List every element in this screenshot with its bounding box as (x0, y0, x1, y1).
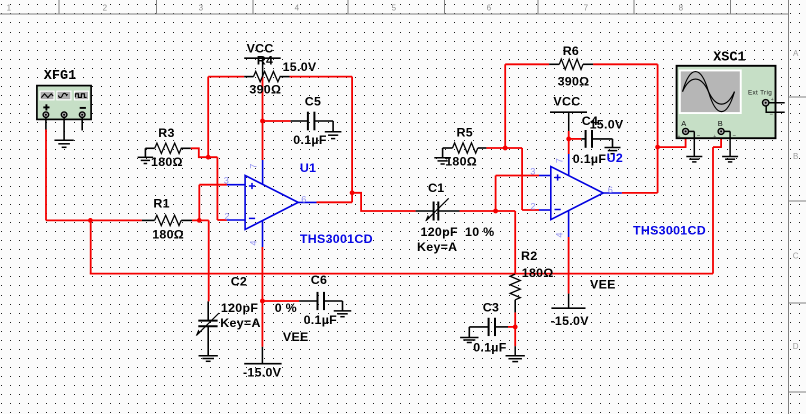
svg-text:THS3001CD: THS3001CD (633, 223, 706, 237)
node R2-C3 junction (513, 325, 518, 330)
resistor R5 (443, 147, 453, 149)
capacitor C4 (581, 138, 585, 140)
op-amp U1 (227, 160, 317, 247)
svg-text:A: A (793, 49, 799, 58)
svg-text:120pF: 120pF (421, 225, 458, 239)
svg-text:0.1µF: 0.1µF (573, 152, 607, 166)
wire (45, 117, 47, 130)
node input junction (88, 218, 93, 223)
ground (199, 356, 218, 362)
ground (325, 132, 342, 139)
capacitor C6 (299, 300, 317, 302)
wire (208, 76, 244, 78)
capacitor C2 variable (207, 301, 209, 320)
wire (622, 192, 658, 194)
svg-text:2: 2 (530, 201, 535, 211)
wire (351, 77, 353, 203)
capacitor C1 variable (416, 210, 434, 212)
function generator XFG1 (37, 86, 91, 120)
resistor R6 (549, 63, 559, 65)
svg-text:+: + (678, 134, 681, 140)
wire (45, 130, 47, 221)
svg-text:6: 6 (301, 195, 306, 205)
wire (508, 326, 515, 328)
svg-text:U1: U1 (300, 161, 316, 175)
svg-text:3: 3 (199, 4, 204, 13)
ground (722, 157, 738, 162)
wire (713, 146, 721, 148)
power VCC (244, 57, 281, 59)
op-amp U2 (539, 154, 622, 237)
wire (496, 175, 539, 177)
wire (217, 219, 227, 221)
node R1-right junction (197, 218, 202, 223)
svg-text:R3: R3 (158, 126, 174, 140)
wire (504, 64, 506, 148)
wire (569, 138, 582, 140)
wire (593, 63, 658, 65)
wire (262, 77, 264, 160)
svg-text:−: − (697, 133, 701, 139)
ground (460, 338, 478, 343)
svg-text:0.1µF: 0.1µF (304, 313, 338, 327)
power VCC (550, 111, 587, 113)
svg-text:C3: C3 (483, 300, 499, 314)
wire (514, 211, 516, 274)
wire (63, 119, 65, 139)
svg-text:1: 1 (7, 4, 12, 13)
svg-text:C2: C2 (231, 274, 247, 288)
svg-text:6: 6 (608, 185, 613, 195)
svg-text:R4: R4 (257, 53, 273, 67)
svg-text:3: 3 (530, 166, 535, 176)
resistor R4 (244, 76, 253, 78)
svg-text:2: 2 (224, 211, 229, 221)
wire (263, 120, 291, 122)
resistor R2 (510, 274, 520, 300)
svg-text:D: D (793, 342, 799, 351)
svg-text:−: − (732, 133, 736, 139)
wire (720, 133, 722, 148)
svg-text:7: 7 (249, 163, 259, 168)
node U2 VCC junction (566, 137, 571, 142)
wire (208, 220, 210, 301)
node U1 output junction (350, 190, 355, 195)
wire (317, 201, 353, 203)
svg-text:U2: U2 (607, 151, 623, 165)
ground (605, 148, 621, 154)
wire (657, 64, 659, 193)
svg-text:R1: R1 (153, 197, 169, 211)
svg-text:Key=A: Key=A (417, 240, 457, 254)
wire (521, 148, 523, 210)
wire (505, 63, 549, 65)
svg-text:7: 7 (555, 158, 565, 163)
wire (514, 312, 516, 346)
wire (191, 148, 218, 157)
node R5-R6 junction (503, 146, 508, 151)
svg-text:-15.0V: -15.0V (551, 314, 590, 328)
resistor R3 (145, 147, 154, 149)
svg-text:390Ω: 390Ω (558, 75, 590, 89)
svg-text:10 %: 10 % (465, 225, 494, 239)
wire (460, 210, 516, 212)
wire (568, 131, 570, 154)
svg-text:+: + (771, 97, 774, 103)
svg-text:R2: R2 (521, 249, 537, 263)
node C1-right junction (493, 209, 498, 214)
wire (522, 209, 539, 211)
wire (514, 346, 516, 355)
svg-text:THS3001CD: THS3001CD (300, 232, 373, 246)
svg-text:180Ω: 180Ω (445, 155, 477, 169)
svg-text:C: C (793, 252, 799, 261)
svg-text:VEE: VEE (283, 330, 309, 344)
svg-text:4: 4 (249, 240, 259, 245)
wire (290, 76, 353, 78)
node U1 VCC junction (260, 119, 265, 124)
ground (138, 157, 154, 163)
svg-text:180Ω: 180Ω (152, 227, 184, 241)
svg-text:8: 8 (679, 4, 684, 13)
svg-text:VCC: VCC (553, 94, 580, 108)
wire (90, 220, 92, 273)
wire (46, 219, 142, 221)
wire (261, 247, 263, 347)
wire (192, 219, 209, 221)
oscilloscope XSC1 (677, 66, 776, 138)
power VEE -15.0V (568, 294, 570, 309)
svg-text:390Ω: 390Ω (249, 82, 281, 96)
wire (658, 146, 686, 148)
svg-text:Ext Trig: Ext Trig (748, 90, 772, 97)
svg-text:−: − (770, 112, 774, 118)
ground (686, 157, 702, 162)
wire (486, 147, 522, 149)
capacitor C5 (291, 120, 308, 122)
svg-text:2: 2 (103, 4, 108, 13)
svg-text:XSC1: XSC1 (713, 50, 745, 65)
node U1 VEE junction (260, 299, 265, 304)
svg-text:0 %: 0 % (275, 301, 297, 315)
svg-text:C1: C1 (428, 181, 444, 195)
wire (352, 193, 416, 211)
svg-text:C5: C5 (305, 94, 321, 108)
svg-text:-15.0V: -15.0V (243, 365, 282, 379)
svg-text:XFG1: XFG1 (44, 69, 76, 84)
svg-text:A: A (681, 119, 686, 128)
svg-text:+: + (713, 134, 716, 140)
svg-text:3: 3 (224, 175, 229, 185)
svg-text:120pF: 120pF (221, 301, 258, 315)
wire (262, 300, 299, 302)
terminal Ext Trig (769, 102, 785, 104)
svg-text:B: B (718, 119, 723, 128)
svg-text:4: 4 (295, 4, 300, 13)
svg-text:4: 4 (555, 232, 565, 237)
svg-text:15.0V: 15.0V (590, 117, 624, 131)
wire (90, 273, 713, 275)
wire (568, 237, 570, 294)
svg-text:VEE: VEE (590, 277, 616, 291)
svg-text:R5: R5 (457, 126, 473, 140)
svg-text:15.0V: 15.0V (283, 60, 317, 74)
wire (685, 133, 687, 148)
wire (712, 147, 714, 274)
ground (434, 158, 451, 164)
svg-text:R6: R6 (563, 44, 579, 58)
svg-text:C6: C6 (311, 273, 327, 287)
wire (199, 184, 227, 186)
svg-text:5: 5 (392, 4, 397, 13)
svg-text:B: B (793, 152, 799, 161)
svg-text:0.1µF: 0.1µF (473, 341, 507, 355)
ground (506, 356, 525, 362)
ground (54, 140, 73, 147)
svg-text:7: 7 (584, 4, 589, 13)
wire (198, 185, 200, 221)
ground (334, 311, 352, 317)
node R3 junction (206, 155, 211, 160)
resistor R1 (142, 219, 155, 221)
node scope-A junction (655, 145, 660, 150)
wire (207, 77, 209, 158)
svg-text:6: 6 (487, 4, 492, 13)
svg-text:180Ω: 180Ω (151, 155, 183, 169)
power VEE -15.0V (261, 347, 263, 364)
wire (81, 119, 83, 130)
svg-text:180Ω: 180Ω (522, 266, 554, 280)
capacitor C3 (469, 326, 488, 328)
svg-text:Key=A: Key=A (220, 316, 260, 330)
wire (495, 176, 497, 212)
wire (216, 157, 218, 220)
svg-text:0.1µF: 0.1µF (293, 133, 327, 147)
